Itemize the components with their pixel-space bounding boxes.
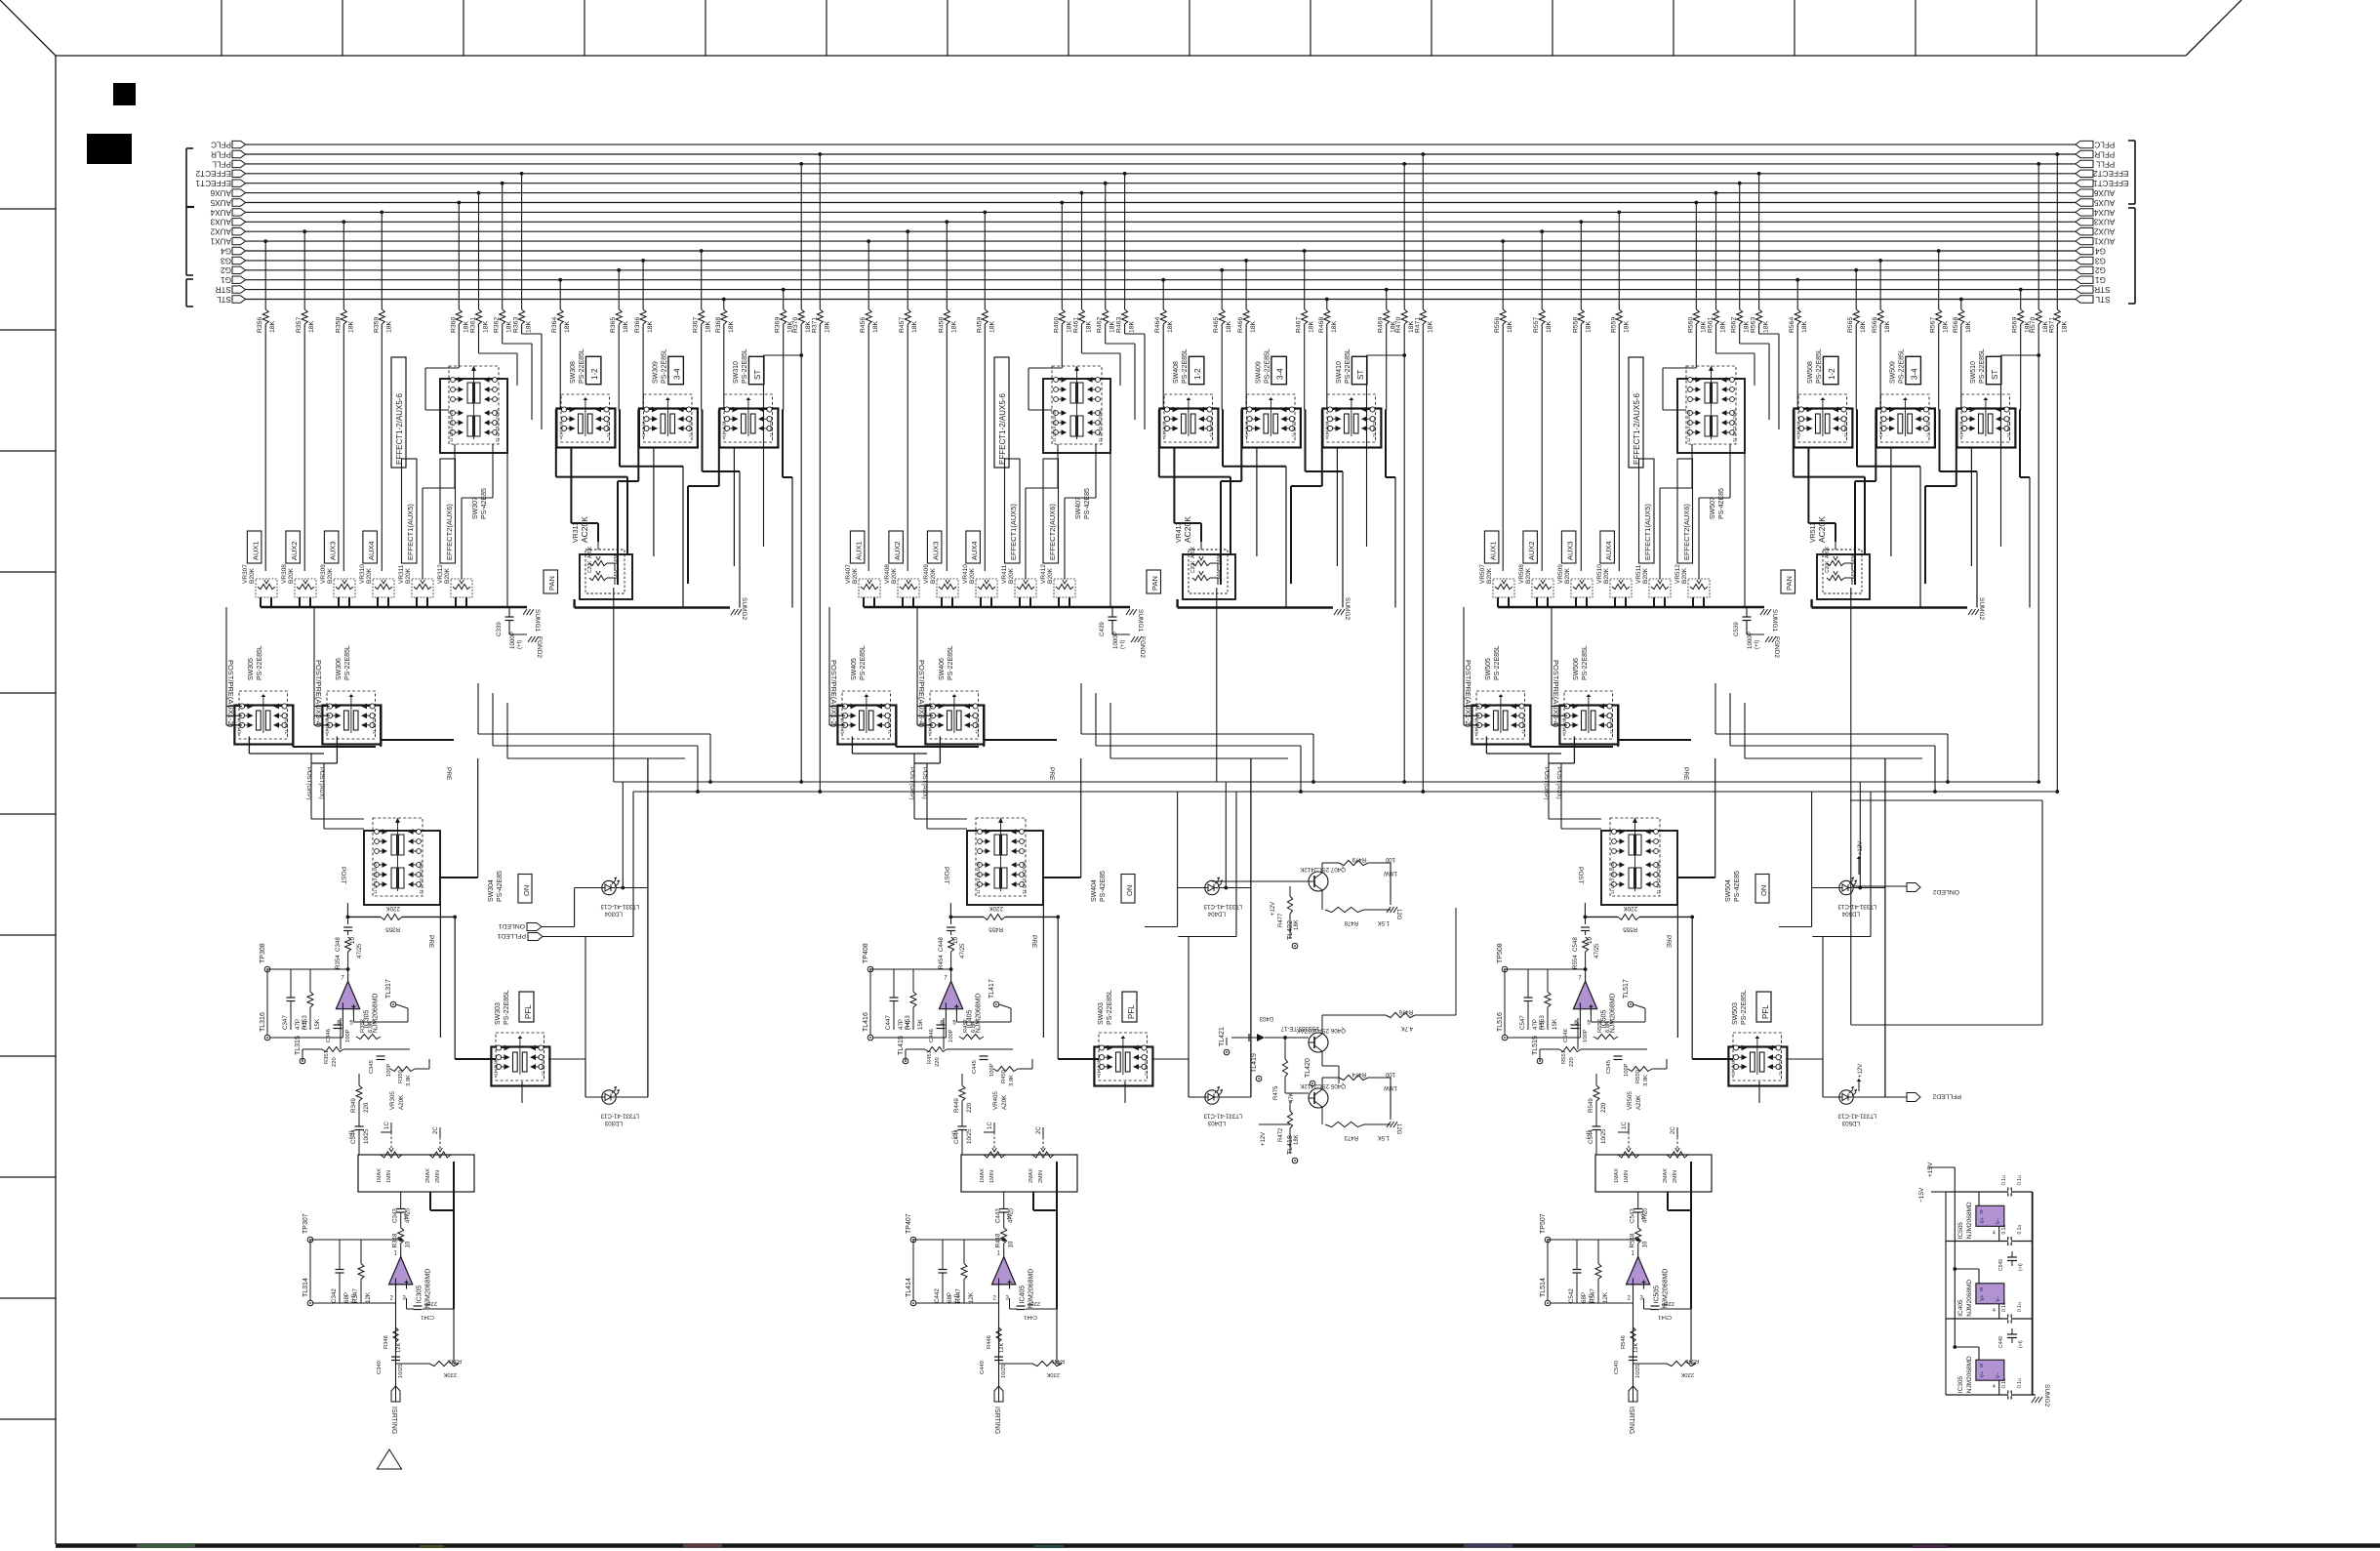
svg-text:V+: V+ <box>1980 1217 1986 1223</box>
potentiometer VR311 <box>398 564 433 607</box>
potentiometer VR510 <box>1596 564 1632 607</box>
svg-text:0.1u: 0.1u <box>2017 1225 2023 1235</box>
svg-text:PS-22E85L: PS-22E85L <box>1345 348 1351 384</box>
svg-text:11 12 13 14 15 16: 11 12 13 14 15 16 <box>976 861 981 894</box>
svg-text:B20K: B20K <box>1564 567 1571 584</box>
bus line G1 <box>221 275 2106 284</box>
svg-text:R553: R553 <box>1539 1015 1546 1030</box>
svg-text:R465: R465 <box>1213 317 1220 333</box>
wire feedback vertical <box>1033 1162 1057 1309</box>
wire SW508 outputs <box>1794 409 1920 607</box>
switch SW403 PS-22E85L <box>1094 990 1152 1085</box>
svg-text:TL416: TL416 <box>863 1012 869 1032</box>
svg-text:2MAX: 2MAX <box>425 1168 431 1183</box>
svg-text:1-2: 1-2 <box>1828 368 1836 380</box>
svg-text:B20K: B20K <box>852 567 859 584</box>
svg-text:PFLR: PFLR <box>2094 149 2115 158</box>
switch SW507 PS-42E85 <box>1677 366 1745 520</box>
svg-text:18K: 18K <box>2061 320 2068 333</box>
svg-text:ON: ON <box>1125 885 1134 896</box>
resistor R358 <box>335 220 354 571</box>
svg-text:B20K: B20K <box>444 567 451 584</box>
resistor R549 capacitor C544 <box>1586 1074 1607 1144</box>
svg-text:G1: G1 <box>221 275 231 284</box>
svg-text:PFLC: PFLC <box>2094 141 2115 149</box>
svg-text:R559: R559 <box>1610 317 1617 333</box>
svg-text:C549: C549 <box>1998 1259 2004 1271</box>
capacitor C448 / resistor R454 <box>938 917 966 972</box>
svg-text:POST/PRE(AUX3-4): POST/PRE(AUX3-4) <box>917 660 926 728</box>
label box EFFECT2(AUX6) <box>440 459 456 563</box>
resistor R564 <box>1789 278 1808 410</box>
wire SW307 input loops <box>1029 334 1406 547</box>
svg-text:AUX1: AUX1 <box>1488 541 1497 560</box>
svg-text:PFL: PFL <box>1761 1004 1770 1019</box>
svg-text:TL316: TL316 <box>260 1012 266 1032</box>
svg-text:R346: R346 <box>383 1335 389 1349</box>
svg-text:18K: 18K <box>1965 320 1972 333</box>
svg-text:(+t): (+t) <box>2018 1263 2024 1271</box>
svg-text:15K: 15K <box>314 1018 321 1030</box>
wire LED connections <box>1145 758 1251 1097</box>
svg-text:R571: R571 <box>2048 317 2055 333</box>
svg-text:B20K: B20K <box>930 567 937 584</box>
svg-text:POST/PRE(AUX1-2): POST/PRE(AUX1-2) <box>829 660 838 728</box>
svg-text:R475: R475 <box>1273 1085 1279 1100</box>
svg-text:R566: R566 <box>1872 317 1878 333</box>
wire PRE to SW303 <box>1058 1059 1189 1103</box>
svg-text:1MIN: 1MIN <box>386 1170 392 1183</box>
label POST <box>340 867 346 884</box>
svg-text:R469: R469 <box>1378 317 1385 333</box>
label box AUX2 <box>889 531 904 563</box>
svg-text:C540: C540 <box>1614 1361 1620 1374</box>
bus line AUX2 <box>210 227 2115 236</box>
svg-text:TL421: TL421 <box>1219 1027 1226 1046</box>
svg-text:TL514: TL514 <box>1540 1278 1547 1297</box>
svg-text:EFFECT1(AUX5): EFFECT1(AUX5) <box>1009 504 1018 560</box>
svg-text:R453: R453 <box>905 1015 911 1030</box>
svg-text:R459: R459 <box>976 317 983 333</box>
bus line PFLR <box>211 149 2115 158</box>
switch SW306 PS-22E85L <box>314 645 381 744</box>
svg-text:21 22 23: 21 22 23 <box>887 717 892 734</box>
svg-text:VR407: VR407 <box>845 564 852 584</box>
label box EFFECT1-2/AUX5-6 <box>994 357 1009 468</box>
resistor R368 <box>715 298 735 410</box>
resistor R361 <box>470 191 490 353</box>
svg-text:LD403: LD403 <box>1207 1120 1226 1126</box>
svg-text:AUX3: AUX3 <box>2093 218 2115 226</box>
svg-text:AUX6: AUX6 <box>2093 188 2115 197</box>
potentiometer VR411 <box>1001 564 1036 607</box>
svg-text:C449: C449 <box>1998 1336 2004 1348</box>
switch SW303 PS-22E85L <box>491 990 549 1085</box>
svg-text:1MIN: 1MIN <box>989 1170 995 1183</box>
svg-text:AUX1: AUX1 <box>2093 237 2115 246</box>
svg-text:R350: R350 <box>398 1070 404 1083</box>
svg-text:21 22 23: 21 22 23 <box>1843 421 1848 437</box>
PSU ground SUMG2 <box>2032 1384 2050 1408</box>
svg-text:POST(AUX): POST(AUX) <box>318 767 324 799</box>
svg-text:SW406: SW406 <box>939 658 946 680</box>
switch SW510 PS-22E85L <box>1956 348 2015 447</box>
resistor R458 <box>938 220 957 571</box>
svg-text:C442: C442 <box>934 1288 941 1303</box>
label box AUX1 <box>850 531 865 563</box>
svg-text:TP307: TP307 <box>303 1213 309 1234</box>
svg-text:G3: G3 <box>2095 256 2106 265</box>
svg-text:11 12 13: 11 12 13 <box>559 421 564 437</box>
svg-text:LT331-41-C13: LT331-41-C13 <box>1837 1113 1876 1120</box>
resistor R455 <box>949 758 1081 1059</box>
svg-text:R474: R474 <box>1351 1071 1366 1077</box>
svg-text:R361: R361 <box>470 317 477 333</box>
svg-text:PFLR: PFLR <box>211 149 231 158</box>
resistor R461 <box>1073 191 1093 353</box>
resistor R462 <box>1097 182 1116 344</box>
svg-text:R556: R556 <box>1494 317 1501 333</box>
svg-text:15K: 15K <box>917 1018 924 1030</box>
ground SUMG1 pot bus <box>261 607 541 633</box>
wire SW307 to effect pots <box>1660 444 1745 607</box>
svg-text:STL: STL <box>2095 295 2110 304</box>
svg-text:3.9K: 3.9K <box>1643 1075 1649 1086</box>
svg-text:11 12 13 14 15 16: 11 12 13 14 15 16 <box>449 409 454 442</box>
svg-text:21 22 23: 21 22 23 <box>606 421 611 437</box>
svg-text:R358: R358 <box>335 317 342 333</box>
svg-text:R552: R552 <box>1597 1019 1603 1033</box>
svg-text:1-2: 1-2 <box>1193 368 1202 380</box>
resistor R556 <box>1494 239 1513 571</box>
svg-text:TP407: TP407 <box>906 1213 912 1234</box>
connector ISRTING <box>390 1381 400 1434</box>
svg-text:VR313: VR313 <box>573 521 580 543</box>
svg-text:68P: 68P <box>947 1292 953 1303</box>
svg-text:18K: 18K <box>1507 320 1513 333</box>
svg-text:6.8K: 6.8K <box>368 1021 374 1033</box>
svg-text:TL314: TL314 <box>303 1278 309 1297</box>
svg-text:18K: 18K <box>269 320 276 333</box>
resistor R470 <box>1395 162 1415 782</box>
svg-text:0.1u: 0.1u <box>2017 1175 2023 1185</box>
potentiometer VR507 <box>1479 564 1514 607</box>
svg-text:AUX3: AUX3 <box>1565 541 1574 560</box>
svg-text:TL315: TL315 <box>295 1036 302 1055</box>
label box PAN <box>1781 570 1795 593</box>
svg-text:10/25: 10/25 <box>1600 1128 1607 1144</box>
svg-text:18K: 18K <box>1860 320 1867 333</box>
svg-text:(+t): (+t) <box>1586 1130 1592 1139</box>
svg-text:C541: C541 <box>1658 1314 1672 1320</box>
svg-text:V−: V− <box>1996 1295 2001 1301</box>
svg-text:G2: G2 <box>2095 265 2106 274</box>
svg-text:V−: V− <box>1996 1218 2001 1224</box>
ground SUMG2 pan bus <box>575 588 747 782</box>
switch SW503 PS-22E85L <box>1728 990 1787 1085</box>
svg-text:R568: R568 <box>1953 317 1959 333</box>
svg-text:IC405: IC405 <box>1020 1286 1027 1304</box>
potentiometer VR407 <box>845 564 880 607</box>
svg-text:SW409: SW409 <box>1256 361 1263 384</box>
svg-text:PS-22E85L: PS-22E85L <box>257 645 263 680</box>
svg-text:R447: R447 <box>955 1288 962 1303</box>
connector PFLLED1 <box>497 932 575 941</box>
svg-text:AUX4: AUX4 <box>2093 208 2115 217</box>
svg-text:1C: 1C <box>988 1122 993 1129</box>
svg-text:220: 220 <box>1569 1057 1575 1067</box>
svg-text:21 22 23: 21 22 23 <box>2006 421 2011 437</box>
svg-text:A20K: A20K <box>1825 546 1831 558</box>
svg-text:B20K: B20K <box>891 567 898 584</box>
svg-text:PS-42E85: PS-42E85 <box>1734 871 1741 902</box>
svg-text:SUMG2: SUMG2 <box>1344 597 1351 621</box>
svg-text:IC305: IC305 <box>417 1286 424 1304</box>
svg-text:TL517: TL517 <box>1623 979 1630 999</box>
svg-text:1MAX: 1MAX <box>980 1168 986 1183</box>
svg-text:AUX6: AUX6 <box>210 188 231 197</box>
wire SW410 outputs <box>1291 409 1395 607</box>
svg-text:A20K: A20K <box>587 546 593 558</box>
potentiometer VR307 <box>242 564 277 607</box>
svg-text:SW405: SW405 <box>851 658 858 680</box>
switch SW404 PS-42E85 <box>967 818 1107 906</box>
svg-text:R470: R470 <box>1395 317 1402 333</box>
label box PAN <box>1147 570 1161 593</box>
svg-text:SW509: SW509 <box>1890 361 1897 384</box>
svg-text:R554: R554 <box>1572 955 1579 969</box>
svg-text:POST(GRP): POST(GRP) <box>908 767 914 799</box>
test points TP507 TL514 <box>1540 1213 1640 1306</box>
label box AUX4 <box>363 531 378 563</box>
svg-text:R362: R362 <box>494 317 501 333</box>
resistor R557 <box>1533 229 1553 571</box>
svg-text:R467: R467 <box>1296 317 1303 333</box>
capacitor C442 resistor R447 <box>934 1240 975 1303</box>
svg-text:TL418: TL418 <box>1287 1135 1294 1155</box>
connector ONLED1 <box>499 922 542 931</box>
svg-text:AUX3: AUX3 <box>328 541 337 560</box>
svg-text:B20K: B20K <box>288 567 295 584</box>
svg-text:+12V: +12V <box>1261 1132 1267 1146</box>
svg-text:8: 8 <box>1980 1364 1983 1369</box>
label box AUX1 <box>1484 531 1499 563</box>
svg-text:EFFECT1-2/AUX5-6: EFFECT1-2/AUX5-6 <box>998 393 1007 465</box>
svg-text:A20K: A20K <box>398 1094 405 1110</box>
svg-text:STR: STR <box>216 285 231 294</box>
svg-text:11 12 13 14 15 16: 11 12 13 14 15 16 <box>1052 409 1057 442</box>
svg-text:R562: R562 <box>1731 317 1738 333</box>
svg-text:R454: R454 <box>938 955 945 969</box>
resistor R356 <box>257 239 276 571</box>
resistor R355 <box>346 758 478 1059</box>
svg-text:C548: C548 <box>1572 937 1579 952</box>
wire feedback vertical <box>1668 1162 1691 1309</box>
svg-text:R451: R451 <box>927 1050 933 1064</box>
switch SW509 PS-22E85L <box>1876 348 1935 447</box>
svg-text:PS-22E85L: PS-22E85L <box>1582 645 1589 680</box>
svg-text:B20K: B20K <box>1486 567 1493 584</box>
svg-text:SUMG1: SUMG1 <box>1771 609 1778 633</box>
svg-text:4: 4 <box>1993 1308 1996 1314</box>
svg-text:10: 10 <box>1641 1214 1647 1220</box>
svg-text:100: 100 <box>1385 1071 1395 1077</box>
svg-text:47/25: 47/25 <box>1593 943 1600 959</box>
svg-text:SW408: SW408 <box>1173 361 1180 384</box>
svg-text:R461: R461 <box>1073 317 1080 333</box>
svg-text:18K: 18K <box>1801 320 1808 333</box>
svg-text:TL415: TL415 <box>898 1036 905 1055</box>
svg-text:8: 8 <box>1980 1209 1983 1215</box>
svg-text:R478: R478 <box>1344 919 1358 925</box>
registration black square large <box>87 134 132 164</box>
svg-text:LD503: LD503 <box>1841 1120 1860 1126</box>
svg-text:18K: 18K <box>1294 919 1300 930</box>
svg-text:47P: 47P <box>898 1019 905 1030</box>
svg-text:B20K: B20K <box>405 567 412 584</box>
svg-text:PAN: PAN <box>1785 576 1794 591</box>
label box AUX3 <box>1561 531 1576 563</box>
svg-text:IC505: IC505 <box>1957 1222 1964 1240</box>
feedback network R451 C446 R450 C445 R452 <box>898 1018 1032 1086</box>
resistor R464 <box>1154 278 1174 410</box>
svg-text:SW506: SW506 <box>1573 658 1580 680</box>
svg-text:21 22 23: 21 22 23 <box>1372 421 1377 437</box>
svg-text:R462: R462 <box>1097 317 1104 333</box>
svg-text:(+t): (+t) <box>1119 640 1126 649</box>
svg-text:R345: R345 <box>448 1358 462 1364</box>
led LD304 <box>600 877 639 917</box>
wire feedback vertical <box>430 1162 454 1309</box>
svg-text:+12V: +12V <box>1271 902 1276 916</box>
switch SW309 PS-22E85L <box>639 348 698 447</box>
svg-text:18K: 18K <box>1167 320 1174 333</box>
svg-text:18K: 18K <box>1720 320 1727 333</box>
svg-text:SW404: SW404 <box>1091 879 1098 902</box>
op-amp IC505a <box>1573 972 1616 1033</box>
wire POST/PRE to SW304 <box>249 737 364 830</box>
svg-text:TL516: TL516 <box>1497 1012 1504 1032</box>
resistor R468 <box>1318 298 1338 410</box>
svg-text:SUMG1: SUMG1 <box>1137 609 1144 633</box>
svg-text:11 12 13: 11 12 13 <box>722 421 727 437</box>
svg-text:VR509: VR509 <box>1557 564 1564 584</box>
op-amp IC405 power section <box>1953 1267 2003 1319</box>
svg-text:G1: G1 <box>2095 275 2106 284</box>
svg-text:C342: C342 <box>331 1288 338 1303</box>
wire pots to POST/PRE <box>1464 607 1691 747</box>
wire SW307 input loops <box>1663 334 2040 547</box>
svg-text:AUX2: AUX2 <box>893 541 902 560</box>
svg-text:100: 100 <box>1385 856 1395 862</box>
svg-text:18K: 18K <box>483 320 490 333</box>
svg-text:R357: R357 <box>296 317 303 333</box>
trimmer VR305 <box>358 1091 474 1192</box>
svg-text:11 12 13: 11 12 13 <box>1325 421 1330 437</box>
svg-text:18K: 18K <box>1086 320 1093 333</box>
wire upper horizontal runs <box>478 683 712 794</box>
svg-text:10: 10 <box>404 1214 410 1220</box>
svg-text:15K: 15K <box>1552 1018 1558 1030</box>
svg-text:2MIN: 2MIN <box>435 1170 441 1183</box>
svg-text:18K: 18K <box>1943 320 1950 333</box>
ground SUMG1 pot bus <box>1498 607 1778 633</box>
svg-text:VR408: VR408 <box>884 564 891 584</box>
svg-text:R360: R360 <box>450 317 457 333</box>
svg-text:B20K: B20K <box>249 567 256 584</box>
svg-text:SUMG1: SUMG1 <box>534 609 541 633</box>
svg-text:LD404: LD404 <box>1207 911 1226 918</box>
svg-text:220: 220 <box>332 1057 338 1067</box>
svg-text:12K: 12K <box>1634 1343 1639 1353</box>
svg-text:100P: 100P <box>1583 1029 1589 1042</box>
svg-text:10/25: 10/25 <box>1001 1364 1007 1378</box>
svg-text:TP507: TP507 <box>1540 1213 1547 1234</box>
svg-text:18K: 18K <box>463 320 469 333</box>
trimmer VR505 <box>1595 1091 1712 1192</box>
svg-text:18K: 18K <box>1250 320 1257 333</box>
svg-text:TL417: TL417 <box>988 979 995 999</box>
connector ISRTING <box>1628 1381 1637 1434</box>
svg-text:VR511: VR511 <box>1635 564 1642 584</box>
potentiometer VR409 <box>923 564 958 607</box>
resistor R566 <box>1872 259 1891 410</box>
svg-text:C543: C543 <box>1630 1208 1636 1223</box>
svg-text:1C: 1C <box>384 1122 390 1129</box>
resistor R460 <box>1053 201 1072 368</box>
svg-text:IC505: IC505 <box>1654 1286 1661 1304</box>
svg-text:R356: R356 <box>257 317 263 333</box>
svg-text:TP508: TP508 <box>1497 943 1504 963</box>
svg-text:1-2: 1-2 <box>590 368 599 380</box>
bus line AUX6 <box>210 188 2115 197</box>
svg-text:PFL: PFL <box>1127 1004 1136 1019</box>
svg-text:11 12 13: 11 12 13 <box>1731 1059 1736 1076</box>
svg-text:R446: R446 <box>987 1335 992 1349</box>
label PRE <box>1030 767 1055 949</box>
resistor R362 <box>494 182 513 344</box>
svg-text:10/25: 10/25 <box>1635 1364 1641 1378</box>
svg-text:EFFECT2: EFFECT2 <box>195 169 231 178</box>
svg-text:18K: 18K <box>1331 320 1338 333</box>
svg-text:POST: POST <box>943 867 949 884</box>
wire SW307 to effect pots <box>423 444 507 607</box>
svg-text:POST(AUX): POST(AUX) <box>921 767 927 799</box>
resistor R363 <box>513 172 533 334</box>
wire PRE to SW303 <box>455 1059 585 1103</box>
svg-text:6.8K: 6.8K <box>1605 1021 1611 1033</box>
bus line G2 <box>221 265 2106 274</box>
svg-text:R353: R353 <box>302 1015 308 1030</box>
svg-text:C341: C341 <box>421 1314 434 1320</box>
capacitor C339 and ground FGND2 <box>496 607 543 658</box>
resistor R371 <box>811 152 830 792</box>
svg-text:11 12 13 14 15 16: 11 12 13 14 15 16 <box>1610 861 1615 894</box>
svg-text:PS-42E85: PS-42E85 <box>1100 871 1107 902</box>
svg-text:VR513: VR513 <box>1810 521 1817 543</box>
svg-text:(+t): (+t) <box>951 1130 957 1139</box>
svg-text:POST(GRP): POST(GRP) <box>1543 767 1549 799</box>
svg-text:47P: 47P <box>295 1019 302 1030</box>
svg-text:4.7K: 4.7K <box>1401 1025 1413 1031</box>
svg-text:SW305: SW305 <box>248 658 255 680</box>
svg-text:TL515: TL515 <box>1532 1036 1539 1055</box>
svg-text:R561: R561 <box>1708 317 1714 333</box>
svg-text:A20K: A20K <box>1635 1094 1642 1110</box>
registration black square small <box>113 83 136 105</box>
svg-text:2C: 2C <box>1671 1126 1676 1134</box>
svg-text:PS-42E85: PS-42E85 <box>497 871 504 902</box>
